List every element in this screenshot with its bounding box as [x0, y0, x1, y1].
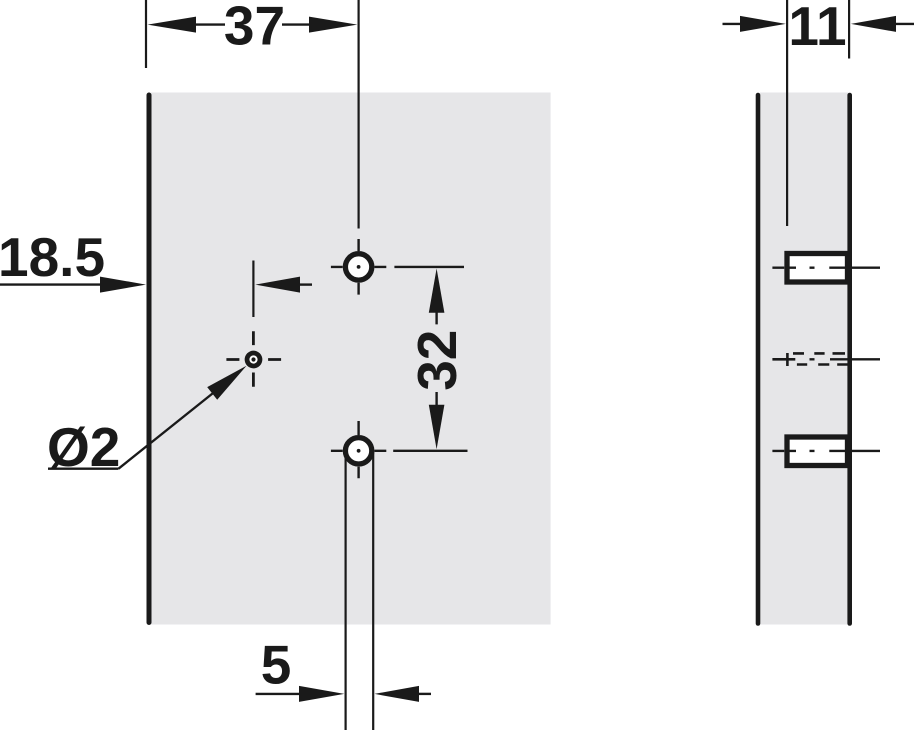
hidden hole bottom dashed line: [797, 363, 848, 366]
svg-text:5: 5: [261, 634, 292, 696]
dimension 37: left arrowhead: [148, 17, 197, 33]
svg-text:32: 32: [406, 330, 468, 391]
side plate left edge (thick): [756, 95, 761, 624]
dimension 11: right arrowhead: [851, 16, 896, 32]
top screw hole crosshair arms: [331, 239, 386, 295]
dimension 5: left arrowhead: [299, 686, 344, 702]
dimension 11: right arrow tail: [895, 23, 914, 25]
dimension 11: right extension line: [848, 0, 850, 59]
upper slot (side view): [787, 254, 848, 283]
hidden hole centerline dot and right segment: [810, 358, 881, 360]
svg-text:18.5: 18.5: [0, 226, 105, 288]
dimension 11: left arrow tail: [723, 23, 742, 25]
svg-text:11: 11: [788, 0, 846, 57]
front plate left edge (thick): [147, 95, 152, 623]
small hole 2mm (outer ring): [245, 351, 263, 369]
dimension 5: right tail line: [418, 693, 431, 695]
hidden hole (side view) cross: [772, 353, 795, 366]
bottom screw hole ring: [345, 438, 371, 464]
front view plate body: [151, 93, 551, 625]
small hole white ring: [249, 355, 257, 363]
label Ø2: leader arrowhead: [207, 366, 246, 400]
dimension 18.5: counter arrow tail: [299, 283, 312, 285]
top screw hole center dot: [357, 265, 361, 269]
side view plate body: [760, 93, 848, 625]
bottom screw hole crosshair arms: [331, 421, 386, 478]
label Ø2: underline: [48, 468, 119, 470]
label Ø2: leader line: [119, 392, 216, 469]
dimension 37: hole axis / right extension line: [358, 0, 360, 229]
dimension 11: left arrowhead: [740, 16, 786, 32]
small hole centerline dashes: [226, 331, 281, 387]
dimension 18.5: dimension line (left of plate): [0, 283, 101, 285]
dimension 11: left extension line: [786, 0, 788, 226]
svg-text:37: 37: [224, 0, 285, 57]
dimension 32: down arrowhead: [429, 405, 445, 450]
dimension 18.5: counter arrowhead at axis: [255, 277, 300, 293]
dimension 32: lower extension line: [393, 450, 467, 452]
dimension 37: dimension line segments: [195, 23, 310, 25]
hidden hole top dashed line: [793, 352, 845, 355]
dimension 5: left dimension line: [256, 693, 300, 695]
dimension 37: right arrowhead: [309, 17, 357, 33]
dimension 18.5: arrowhead at plate edge: [100, 277, 146, 293]
lower slot centerline: [772, 450, 880, 452]
dimension 32: up arrowhead: [429, 269, 445, 313]
dimension 18.5: small hole axis extension line: [252, 261, 254, 318]
dimension 32: upper extension line: [394, 266, 464, 268]
lower slot (side view): [787, 437, 848, 466]
dimension 37: left extension line: [145, 0, 147, 68]
small hole center dot: [251, 357, 255, 361]
dimension 5: right arrowhead: [375, 686, 420, 702]
drill depth line right: [372, 452, 374, 730]
side plate right edge (thick): [847, 95, 852, 624]
top screw hole ring: [345, 254, 371, 280]
bottom screw hole center dot: [357, 449, 361, 453]
dimension 32: dimension line segments: [435, 312, 437, 405]
drill depth line left: [345, 452, 347, 730]
upper slot centerline: [772, 267, 880, 269]
